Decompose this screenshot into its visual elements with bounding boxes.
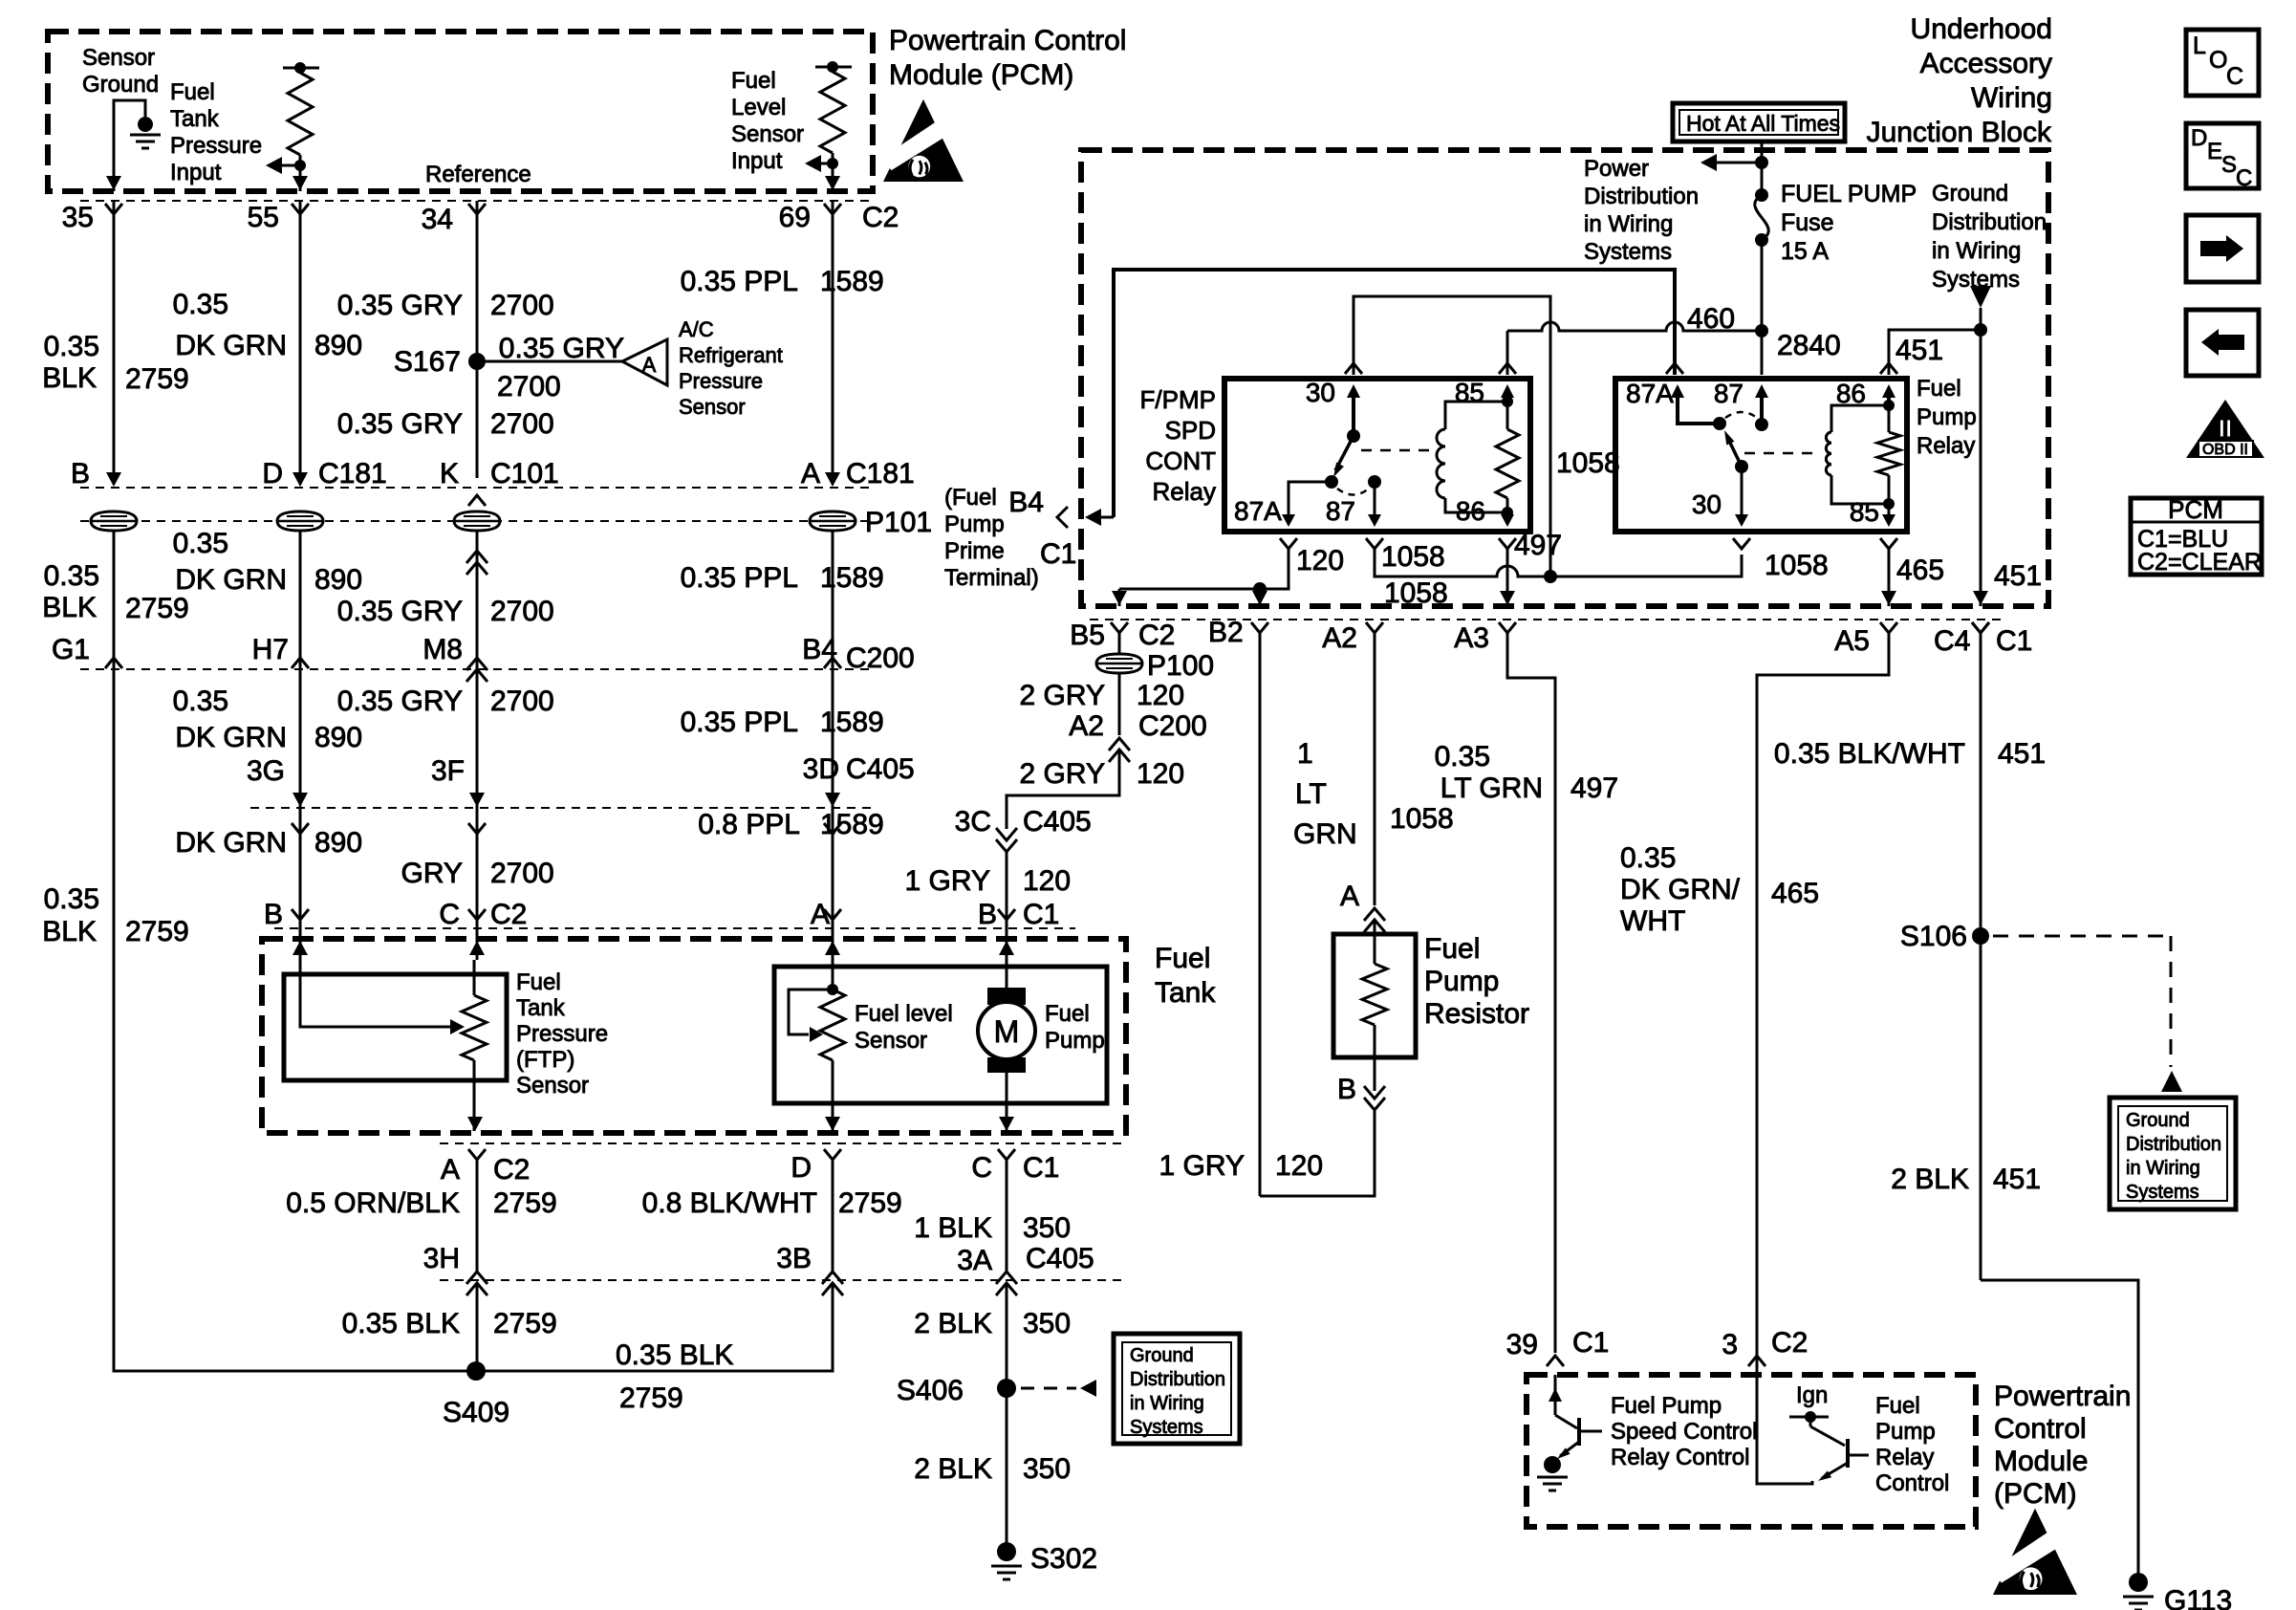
svg-text:B2: B2 [1208, 617, 1244, 648]
svg-text:Input: Input [731, 148, 783, 174]
svg-text:0.35: 0.35 [1620, 842, 1676, 874]
svg-text:in Wiring: in Wiring [1584, 211, 1673, 237]
svg-text:350: 350 [1023, 1308, 1071, 1339]
svg-text:2700: 2700 [490, 596, 554, 627]
svg-text:Ground: Ground [2126, 1110, 2190, 1131]
ground distribution rail 451 [1980, 308, 1982, 606]
svg-text:DK GRN: DK GRN [175, 722, 287, 753]
relay2 coil [1826, 432, 1831, 475]
svg-text:A: A [642, 353, 657, 377]
S406 reference dashes [1021, 1387, 1076, 1390]
svg-text:C2: C2 [1138, 620, 1175, 651]
svg-text:0.35 GRY: 0.35 GRY [337, 290, 463, 321]
svg-text:S106: S106 [1900, 921, 1967, 952]
svg-text:3D: 3D [803, 753, 839, 785]
svg-text:C200: C200 [1138, 710, 1207, 742]
arrows at PCM box bottom [106, 176, 121, 190]
svg-text:Sensor: Sensor [82, 45, 155, 71]
splice S409 [466, 1361, 486, 1381]
svg-text:890: 890 [314, 722, 362, 753]
Hot At All Times box [1673, 103, 1845, 141]
Fuel Pump Resistor box [1333, 934, 1416, 1057]
bulkhead grommet P101 [277, 511, 323, 531]
chevron C200 [292, 658, 309, 668]
svg-text:0.8 PPL: 0.8 PPL [698, 809, 800, 840]
svg-text:C181: C181 [318, 458, 387, 490]
OBD II symbol [2186, 400, 2264, 458]
FUEL PUMP fuse 15A [1761, 140, 1764, 195]
svg-text:0.35: 0.35 [173, 289, 228, 320]
S106 reference dashed line [1993, 935, 2171, 938]
svg-text:0.35 GRY: 0.35 GRY [499, 333, 624, 364]
svg-text:2759: 2759 [619, 1382, 683, 1414]
svg-text:39: 39 [1506, 1329, 1538, 1360]
svg-text:A2: A2 [1322, 622, 1357, 654]
svg-text:WHT: WHT [1620, 905, 1685, 937]
svg-text:C2: C2 [1771, 1327, 1808, 1359]
fuel level sensor wiper [789, 990, 833, 1034]
svg-text:0.5 ORN/BLK: 0.5 ORN/BLK [286, 1187, 460, 1219]
svg-text:Junction Block: Junction Block [1867, 117, 2052, 148]
svg-text:Powertrain: Powertrain [1994, 1381, 2131, 1412]
wire 0.35 BLK/WHT 451 [1972, 622, 1989, 633]
power distribution arrow [1700, 154, 1717, 171]
svg-text:2700: 2700 [490, 858, 554, 889]
relay2 coil suppression resistor [1877, 432, 1900, 475]
chevron C200 [824, 658, 841, 668]
wire 0.35 PPL 1589 (pin69) [832, 201, 834, 478]
svg-text:L: L [2193, 33, 2206, 59]
wire junction chevron [105, 204, 122, 214]
svg-text:2 GRY: 2 GRY [1020, 758, 1106, 790]
svg-text:Distribution: Distribution [2126, 1134, 2221, 1155]
svg-text:O: O [2209, 47, 2227, 74]
Ground Distribution in Wiring Systems box (S406) [1114, 1334, 1240, 1444]
svg-text:86: 86 [1456, 496, 1485, 526]
arrow into tank [469, 941, 485, 955]
svg-text:A2: A2 [1069, 710, 1104, 742]
wire 0.35 DK GRN 890 seg3 [299, 669, 302, 808]
svg-text:Pump: Pump [1045, 1028, 1105, 1054]
svg-text:Wiring: Wiring [1971, 82, 2052, 114]
svg-text:Sensor: Sensor [855, 1028, 927, 1054]
relay1 contact 87 [1368, 475, 1381, 489]
wire to A/C pressure sensor [477, 360, 622, 363]
svg-text:87: 87 [1326, 496, 1355, 526]
DESC legend box [2186, 123, 2259, 188]
svg-text:3H: 3H [423, 1243, 460, 1274]
wire 1 GRY 120 seg3 [1006, 852, 1008, 920]
svg-text:F/PMP: F/PMP [1140, 385, 1216, 414]
svg-text:Underhood: Underhood [1911, 13, 2052, 45]
wire 0.35 BLK 2759 (pin35) [113, 201, 116, 478]
svg-text:Fuel: Fuel [1424, 933, 1480, 965]
svg-text:350: 350 [1023, 1212, 1071, 1244]
wire GRY 2700 seg4 [476, 808, 479, 920]
svg-text:2759: 2759 [493, 1308, 557, 1339]
wire 1058 (relay1 87 to relay2 30) [1366, 538, 1383, 549]
svg-text:S: S [2221, 152, 2237, 178]
relay2 contact dashed arc [1725, 412, 1757, 418]
svg-text:Systems: Systems [1584, 239, 1672, 265]
reference triangle up [2161, 1071, 2182, 1092]
wire to relay1 pin85 [1506, 331, 1509, 375]
bulkhead grommet P101 [810, 511, 856, 531]
pin C4 / C1 chevron [1972, 622, 1989, 633]
svg-text:1589: 1589 [820, 809, 884, 840]
svg-text:1058: 1058 [1381, 541, 1445, 573]
svg-text:Speed Control: Speed Control [1611, 1419, 1757, 1445]
svg-text:Fuel level: Fuel level [855, 1001, 953, 1027]
pin A3 chevron [1499, 622, 1516, 633]
svg-text:A: A [1340, 881, 1359, 912]
wire relay1 pin30 to 1058 node [1354, 296, 1550, 572]
FTP sensor resistor [462, 995, 487, 1060]
svg-text:C1: C1 [1572, 1327, 1609, 1359]
wire 0.35 BLK (long left rail to S409) [114, 669, 476, 1371]
svg-text:Hot At All Times: Hot At All Times [1686, 111, 1840, 136]
svg-text:120: 120 [1296, 545, 1344, 577]
wire 0.35 GRY 2700 seg3 [476, 669, 479, 808]
resistor (fuel level input pull-up) [815, 66, 852, 69]
svg-text:3: 3 [1722, 1329, 1738, 1360]
wire 497 (relay1 86 to A3) [1499, 538, 1516, 549]
pin A5 chevron [1880, 622, 1897, 633]
svg-text:B4: B4 [802, 634, 837, 665]
svg-text:55: 55 [248, 202, 279, 233]
connector row C200 [80, 668, 872, 670]
svg-text:II: II [2219, 414, 2232, 443]
svg-text:A/C: A/C [679, 317, 714, 341]
wire 1 LT GRN 1058 (A2 to fuel pump resistor) [1374, 633, 1376, 905]
chevron up below P101 (pin K wire) [466, 551, 487, 563]
svg-text:Fuel: Fuel [1875, 1393, 1920, 1419]
Fuel Tank Pressure (FTP) Sensor box [284, 974, 507, 1080]
relay1 coil suppression resistor [1496, 429, 1519, 498]
svg-text:BLK: BLK [42, 592, 97, 623]
svg-text:1 GRY: 1 GRY [905, 865, 991, 897]
C405 crossing [825, 793, 840, 807]
svg-text:30: 30 [1692, 490, 1722, 519]
svg-text:Pump: Pump [944, 511, 1005, 537]
connector row 3H/3B/3A C405 [440, 1279, 1126, 1281]
svg-text:C: C [2236, 165, 2252, 191]
C405 crossing [292, 793, 308, 807]
svg-text:0.35 PPL: 0.35 PPL [681, 562, 798, 594]
right arrow legend box [2186, 215, 2259, 282]
svg-text:BLK: BLK [42, 916, 97, 947]
svg-text:Refrigerant: Refrigerant [679, 343, 783, 367]
wire 0.35 DK GRN 890 (pin55) [299, 201, 302, 478]
svg-text:Distribution: Distribution [1584, 184, 1699, 209]
svg-text:2700: 2700 [490, 290, 554, 321]
svg-text:H7: H7 [252, 634, 289, 665]
svg-text:FUEL PUMP: FUEL PUMP [1781, 181, 1917, 207]
svg-text:Sensor: Sensor [516, 1073, 589, 1099]
bulkhead grommet P101 [454, 511, 500, 531]
arrow into tank [999, 941, 1014, 955]
svg-text:1589: 1589 [820, 266, 884, 297]
svg-text:Ground: Ground [1130, 1345, 1194, 1366]
svg-text:D: D [791, 1152, 812, 1184]
Fuel Tank dashed box [262, 939, 1126, 1133]
below-tank chevron [998, 1149, 1015, 1160]
wire 2 BLK 350 (to S302) [1006, 1388, 1008, 1547]
svg-text:in Wiring: in Wiring [1130, 1393, 1204, 1414]
svg-text:2700: 2700 [497, 371, 561, 402]
svg-text:0.35 BLK/WHT: 0.35 BLK/WHT [1774, 738, 1965, 770]
svg-text:2759: 2759 [125, 363, 189, 395]
relay Fuel Pump Relay box [1615, 379, 1907, 532]
left arrow legend box [2186, 310, 2259, 376]
svg-text:C: C [439, 899, 460, 930]
svg-text:B: B [1337, 1074, 1356, 1105]
svg-text:497: 497 [1514, 530, 1562, 561]
svg-text:465: 465 [1771, 878, 1819, 909]
svg-text:GRY: GRY [401, 858, 463, 889]
wire junction chevron [824, 204, 841, 214]
svg-text:Terminal): Terminal) [944, 565, 1039, 591]
svg-text:Pump: Pump [1875, 1419, 1936, 1445]
wire B2 branch [1259, 589, 1262, 606]
svg-text:2700: 2700 [490, 408, 554, 440]
wire 0.35 GRY 2700 (seg2) [476, 532, 479, 669]
chevron C200 [105, 658, 122, 668]
svg-text:S167: S167 [394, 346, 461, 378]
svg-text:Tank: Tank [516, 995, 566, 1021]
transistor Q1 fuel pump speed control [1554, 1375, 1557, 1415]
bulkhead grommet P100 [1096, 654, 1142, 673]
svg-text:B: B [264, 899, 283, 930]
svg-text:Module: Module [1994, 1446, 2088, 1477]
wire 2 BLK 350 (to S406) [1006, 1283, 1008, 1388]
svg-text:1058: 1058 [1384, 577, 1448, 609]
wire 0.35 DK GRN 890 (seg2) [299, 532, 302, 669]
svg-text:LT: LT [1295, 778, 1327, 810]
ground G113 [2129, 1573, 2148, 1592]
wire 0.35 PPL 1589 seg3 [832, 669, 834, 808]
svg-text:C: C [2226, 63, 2243, 90]
svg-text:SPD: SPD [1165, 416, 1216, 445]
wire junction chevron [468, 204, 486, 214]
wire 0.8 PPL 1589 seg4 [832, 808, 834, 920]
svg-text:3A: 3A [957, 1245, 992, 1276]
splice S167 [468, 353, 486, 370]
below-tank chevron [824, 1149, 841, 1160]
svg-text:1058: 1058 [1765, 550, 1829, 581]
svg-text:DK GRN: DK GRN [175, 564, 287, 596]
svg-text:3F: 3F [431, 755, 465, 787]
wire 0.35 LT GRN 497 (A3 to PCM) [1507, 633, 1555, 1353]
svg-text:(FTP): (FTP) [516, 1047, 574, 1073]
svg-text:LT GRN: LT GRN [1440, 772, 1543, 804]
svg-text:C1: C1 [1040, 538, 1076, 570]
B4 off-page chevron [1057, 507, 1068, 528]
arrow into tank [825, 941, 840, 955]
svg-text:87A: 87A [1234, 496, 1282, 526]
svg-text:35: 35 [62, 202, 94, 233]
svg-text:Accessory: Accessory [1920, 48, 2052, 79]
svg-text:0.35: 0.35 [173, 528, 228, 559]
svg-text:3B: 3B [776, 1243, 812, 1274]
svg-text:Module (PCM): Module (PCM) [889, 59, 1073, 91]
svg-text:2 BLK: 2 BLK [914, 1453, 992, 1485]
svg-text:1058: 1058 [1556, 447, 1620, 479]
svg-text:Fuel: Fuel [516, 969, 561, 995]
bulkhead grommet P101 [91, 511, 137, 531]
wire 0.35 DK GRN/WHT 465 (A5 to PCM) [1757, 633, 1889, 1353]
svg-text:B: B [978, 899, 997, 930]
FTP sensor internal wiper wire [300, 960, 450, 1027]
relay2 switch blade [1727, 437, 1742, 467]
ESD symbol (PCM top) [883, 99, 964, 182]
svg-text:86: 86 [1836, 379, 1866, 408]
resistor (FTP input pull-up) [283, 67, 319, 70]
svg-text:2 BLK: 2 BLK [914, 1308, 992, 1339]
svg-text:2759: 2759 [125, 916, 189, 947]
relay2 mechanical link [1744, 452, 1818, 455]
svg-text:0.35 GRY: 0.35 GRY [337, 596, 463, 627]
svg-text:0.35: 0.35 [44, 331, 99, 362]
svg-text:0.35: 0.35 [44, 883, 99, 915]
svg-text:Reference: Reference [425, 162, 531, 187]
svg-text:Pump: Pump [1424, 966, 1499, 997]
svg-text:Prime: Prime [944, 538, 1005, 564]
svg-text:0.35: 0.35 [173, 685, 228, 717]
svg-text:1589: 1589 [820, 562, 884, 594]
wire 460 from PCM B4 [1114, 270, 1675, 517]
wire 0.35 BLK 2759 (S409 to 3B) [476, 1283, 833, 1371]
svg-text:A5: A5 [1834, 625, 1870, 657]
svg-text:120: 120 [1023, 865, 1071, 897]
svg-text:Relay: Relay [1875, 1445, 1934, 1470]
relay F/PMP SPD CONT Relay box [1224, 379, 1530, 532]
svg-text:G113: G113 [2164, 1585, 2232, 1610]
svg-text:Level: Level [731, 95, 786, 120]
svg-text:S406: S406 [897, 1375, 964, 1406]
fuel level sensor resistor [827, 984, 838, 995]
svg-text:P101: P101 [865, 507, 932, 538]
svg-text:Pressure: Pressure [170, 133, 262, 159]
svg-text:30: 30 [1306, 378, 1335, 407]
svg-text:Tank: Tank [1155, 977, 1216, 1009]
tank row chevron [824, 909, 841, 920]
svg-text:451: 451 [1895, 335, 1943, 366]
ground S302 [997, 1542, 1016, 1561]
splice S406 [997, 1379, 1016, 1398]
wire 465 (relay2 85 to A5) [1880, 538, 1897, 549]
svg-text:Systems: Systems [2126, 1182, 2199, 1203]
Powertrain Control Module (PCM) bottom dashed box [1527, 1375, 1976, 1527]
wire DK GRN 890 seg4 [299, 808, 302, 920]
svg-text:120: 120 [1275, 1150, 1323, 1182]
chevrons 3H row [996, 1272, 1017, 1284]
chevrons 3H row [822, 1272, 843, 1284]
wire 0.35 PPL 1589 (seg2) [832, 532, 834, 669]
PCM connector pin row [80, 200, 872, 202]
svg-text:C: C [971, 1152, 992, 1184]
svg-text:0.35 BLK: 0.35 BLK [342, 1308, 460, 1339]
svg-text:Fuel: Fuel [170, 79, 215, 105]
below-tank chevron [468, 1149, 486, 1160]
chevron up (pin K) [468, 495, 486, 506]
svg-text:890: 890 [314, 564, 362, 596]
fuel pump resistor element [1374, 934, 1376, 964]
relay1 switch blade [1335, 436, 1354, 470]
svg-text:A: A [801, 458, 820, 490]
wire 120 (relay1 87A to B5/B2) [1280, 538, 1297, 549]
svg-text:BLK: BLK [42, 362, 97, 394]
svg-text:OBD II: OBD II [2202, 442, 2248, 458]
svg-text:1: 1 [1297, 738, 1313, 770]
relay1 contact 87A wire [1289, 482, 1332, 518]
svg-text:in Wiring: in Wiring [1932, 238, 2021, 264]
svg-text:K: K [440, 458, 459, 490]
svg-text:Ground: Ground [1932, 181, 2008, 207]
svg-text:2840: 2840 [1777, 330, 1841, 361]
svg-text:Fuel: Fuel [731, 68, 776, 94]
C405 crossing [469, 793, 485, 807]
svg-text:0.35 GRY: 0.35 GRY [337, 685, 463, 717]
wire 1 GRY 120 (B2 to resistor B) [1260, 1110, 1375, 1196]
svg-text:E: E [2207, 139, 2222, 164]
svg-text:2 GRY: 2 GRY [1020, 680, 1106, 711]
svg-text:85: 85 [1850, 497, 1879, 527]
chevrons 3H row [466, 1272, 487, 1284]
svg-text:0.35: 0.35 [44, 560, 99, 592]
B4 arrow into junction block [1085, 509, 1101, 526]
wire 1 BLK 350 [1006, 1160, 1008, 1272]
svg-text:451: 451 [1993, 1164, 2041, 1195]
ground distribution feed triangle [1970, 286, 1991, 308]
svg-text:in Wiring: in Wiring [2126, 1158, 2200, 1179]
splice S106 [1972, 927, 1989, 945]
wire 0.35 GRY 2700 (pin34) [476, 201, 479, 478]
off-page triangle A (A/C refrigerant pressure sensor) [622, 339, 667, 385]
svg-text:C2=CLEAR: C2=CLEAR [2137, 549, 2262, 576]
svg-text:DK GRN: DK GRN [175, 827, 287, 859]
svg-text:2759: 2759 [838, 1187, 902, 1219]
svg-text:B5: B5 [1070, 620, 1105, 651]
connector row C181/C101 [80, 487, 872, 489]
svg-text:S302: S302 [1030, 1543, 1097, 1575]
svg-text:2700: 2700 [490, 685, 554, 717]
svg-text:Pressure: Pressure [679, 369, 763, 393]
svg-text:A3: A3 [1454, 622, 1489, 654]
svg-text:497: 497 [1570, 772, 1618, 804]
svg-text:GRN: GRN [1293, 818, 1357, 850]
svg-text:85: 85 [1455, 378, 1484, 407]
svg-text:Fuel: Fuel [1155, 943, 1210, 974]
wire 1 GRY 120 (fuel pump feed) [1006, 920, 1008, 942]
Fuel level sensor / fuel pump box [774, 967, 1107, 1103]
relay1 mechanical link [1361, 449, 1437, 452]
svg-text:890: 890 [314, 827, 362, 859]
wire 0.5 ORN/BLK 2759 [476, 1160, 479, 1272]
svg-text:A: A [441, 1154, 460, 1186]
double chevron C200 pin M8 [466, 658, 487, 670]
svg-text:CONT: CONT [1145, 446, 1216, 475]
svg-text:15 A: 15 A [1781, 238, 1829, 265]
PCM top dashed box (Powertrain Control Module) [48, 32, 873, 191]
fuel tank connector row [274, 927, 1075, 929]
svg-text:0.35 PPL: 0.35 PPL [681, 266, 798, 297]
svg-text:Control: Control [1875, 1470, 1949, 1496]
relay1 coil [1437, 429, 1445, 498]
svg-text:P100: P100 [1147, 650, 1214, 682]
tank row chevron [998, 909, 1015, 920]
wire 2 GRY 120 (below P100) [1118, 673, 1121, 735]
